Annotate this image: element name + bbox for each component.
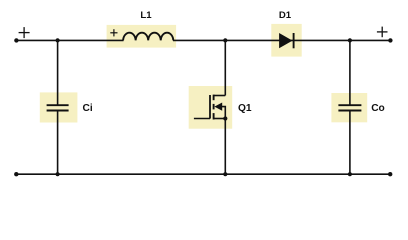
channel stubs — [213, 95, 215, 101]
wire top rail left segment — [16, 39, 123, 41]
terminal dot bottom-right — [388, 172, 392, 176]
terminal + mark top-right — [377, 27, 388, 38]
wire Q1 source branch — [224, 119, 226, 175]
wire Co branch upper — [349, 40, 351, 105]
junction node top of Q1 — [223, 38, 227, 42]
terminal dot top-right — [388, 38, 392, 42]
svg-text:Co: Co — [371, 103, 385, 114]
wire bottom rail — [16, 173, 390, 175]
terminal + mark top-left — [19, 27, 30, 38]
junction node top of Co — [348, 38, 352, 42]
svg-text:L1: L1 — [140, 10, 152, 21]
wire Ci branch lower — [57, 111, 59, 174]
junction node bottom of Ci — [56, 172, 60, 176]
junction node top of Ci — [56, 38, 60, 42]
drain internal lead — [214, 95, 226, 97]
diode D1 — [271, 24, 301, 57]
gate lead — [194, 118, 210, 120]
polarity + mark of L1 — [110, 29, 117, 36]
svg-text:D1: D1 — [279, 10, 292, 21]
transistor Q1 (N-MOSFET) — [189, 86, 233, 129]
wire Ci branch upper — [57, 40, 59, 105]
capacitor Co — [331, 93, 367, 122]
svg-text:Q1: Q1 — [238, 103, 252, 114]
junction node bottom of Q1 — [223, 172, 227, 176]
source junction dot — [223, 116, 227, 120]
body arrow — [214, 103, 222, 111]
inductor L1 — [107, 25, 177, 48]
terminal dot top-left — [14, 38, 18, 42]
junction node bottom of Co — [348, 172, 352, 176]
gate plate — [209, 95, 211, 119]
wire Co branch lower — [349, 111, 351, 174]
svg-text:Ci: Ci — [83, 103, 93, 114]
source internal lead — [214, 118, 226, 120]
wire top rail right segment — [173, 39, 390, 41]
capacitor Ci — [40, 92, 78, 122]
wire Q1 drain branch — [224, 40, 226, 95]
terminal dot bottom-left — [14, 172, 18, 176]
